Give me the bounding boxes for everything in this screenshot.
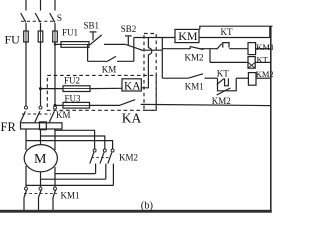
svg-text:KM1: KM1 (61, 191, 80, 201)
svg-text:FU2: FU2 (64, 76, 80, 86)
svg-text:KM1: KM1 (256, 42, 273, 52)
svg-text:KM2: KM2 (256, 69, 273, 79)
svg-text:FU1: FU1 (62, 27, 78, 37)
svg-text:FU: FU (5, 33, 21, 47)
svg-text:KM2: KM2 (119, 152, 138, 162)
svg-text:KA: KA (122, 110, 142, 125)
svg-text:KT: KT (221, 27, 233, 37)
svg-text:SB2: SB2 (121, 24, 137, 34)
svg-text:FR: FR (1, 120, 17, 134)
svg-text:KM2: KM2 (185, 53, 204, 63)
svg-text:KM2: KM2 (212, 96, 231, 106)
svg-text:SB1: SB1 (84, 20, 100, 30)
svg-text:KT: KT (257, 55, 269, 65)
svg-text:M: M (34, 152, 47, 167)
svg-text:KM: KM (178, 29, 198, 43)
svg-text:S: S (57, 14, 62, 24)
svg-text:KM1: KM1 (185, 81, 204, 91)
svg-text:(b): (b) (141, 201, 154, 212)
svg-text:KT: KT (217, 68, 229, 78)
svg-text:KA: KA (124, 80, 141, 92)
svg-text:KM: KM (56, 110, 71, 120)
svg-text:FU3: FU3 (65, 93, 82, 103)
svg-text:KM: KM (102, 64, 117, 74)
